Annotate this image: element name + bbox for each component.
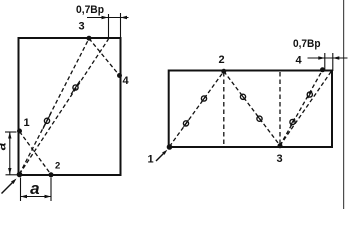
dimension a horizontal: right arrow — [45, 195, 52, 198]
probe ring R5 — [290, 118, 295, 125]
beam 3 to top right corner — [280, 71, 332, 146]
svg-text:a: a — [0, 142, 9, 150]
probe ring R4 — [257, 115, 262, 122]
svg-text:a: a — [30, 179, 39, 198]
node corner left — [17, 172, 23, 178]
svg-text:4: 4 — [123, 75, 130, 87]
svg-text:2: 2 — [219, 54, 225, 66]
dimension 0,7Bp right: extension right edge — [332, 53, 334, 71]
dimension 0,7Bp left: extension line outer — [120, 13, 122, 38]
right plate outline — [169, 71, 332, 148]
dimension a horizontal: line — [21, 196, 52, 198]
entry arrow right figure — [156, 150, 167, 161]
svg-text:4: 4 — [296, 55, 303, 67]
node 2 right — [221, 69, 226, 74]
vertical dashed above node 3 — [279, 72, 281, 145]
probe ring R1 — [183, 120, 188, 127]
probe ring R2 — [201, 95, 206, 102]
dimension a horizontal: left extension — [20, 178, 22, 202]
node 3 left — [87, 36, 92, 41]
svg-text:3: 3 — [277, 153, 283, 165]
dimension 0,7Bp left: right-pointing arrow — [102, 16, 109, 19]
dimension 0,7Bp left: extension line inner — [108, 14, 110, 39]
beam point 3 to point 4 — [89, 39, 120, 76]
node 1 left — [17, 129, 22, 134]
left plate outline — [19, 38, 121, 175]
svg-text:3: 3 — [79, 21, 85, 33]
dimension 0,7Bp left: left-pointing arrow — [121, 16, 128, 19]
dimension a horizontal: right extension — [50, 178, 52, 202]
dimension a horizontal: left arrow — [21, 195, 28, 198]
dimension a vertical: up arrow — [8, 132, 11, 139]
table border vertical line (scan artifact) — [343, 0, 345, 209]
beam 1 to 2 right — [170, 71, 224, 146]
left plate bottom edge extension — [6, 174, 19, 176]
dimension 0,7Bp right: extension through node 4 — [324, 53, 326, 70]
node 4 left — [117, 73, 122, 78]
dimension 0,7Bp right: line — [308, 57, 348, 59]
beam corner to point 3 — [20, 39, 90, 175]
node 1 right — [167, 144, 173, 150]
node 3 right — [278, 143, 283, 148]
svg-text:0,7Вр: 0,7Вр — [76, 4, 104, 16]
entry arrow left figure — [2, 179, 17, 194]
node 4 right — [320, 67, 325, 72]
beam 3 to 4 right — [280, 70, 323, 146]
svg-text:0,7Вр: 0,7Вр — [293, 38, 321, 50]
dimension a vertical: line — [9, 132, 11, 175]
probe ring L1 — [43, 113, 51, 129]
svg-text:1: 1 — [24, 117, 30, 129]
probe ring R6 — [307, 91, 312, 98]
dimension 0,7Bp right: right-pointing arrow — [318, 56, 325, 59]
beam corner to top exit — [20, 39, 109, 174]
probe ring L2 — [71, 81, 80, 94]
node 2 left — [49, 172, 54, 177]
dimension 0,7Bp right: left-pointing arrow — [333, 56, 340, 59]
probe ring R3 — [240, 94, 245, 101]
dimension a vertical: top tick — [5, 131, 17, 133]
svg-text:2: 2 — [55, 161, 60, 172]
vertical dashed under node 2 — [223, 72, 225, 146]
svg-text:1: 1 — [148, 154, 154, 166]
dimension a vertical: down arrow — [8, 168, 11, 175]
beam 2 to 3 right — [224, 71, 280, 145]
beam point 1 to point 2 — [20, 132, 52, 175]
dimension 0,7Bp left: line — [87, 17, 129, 19]
